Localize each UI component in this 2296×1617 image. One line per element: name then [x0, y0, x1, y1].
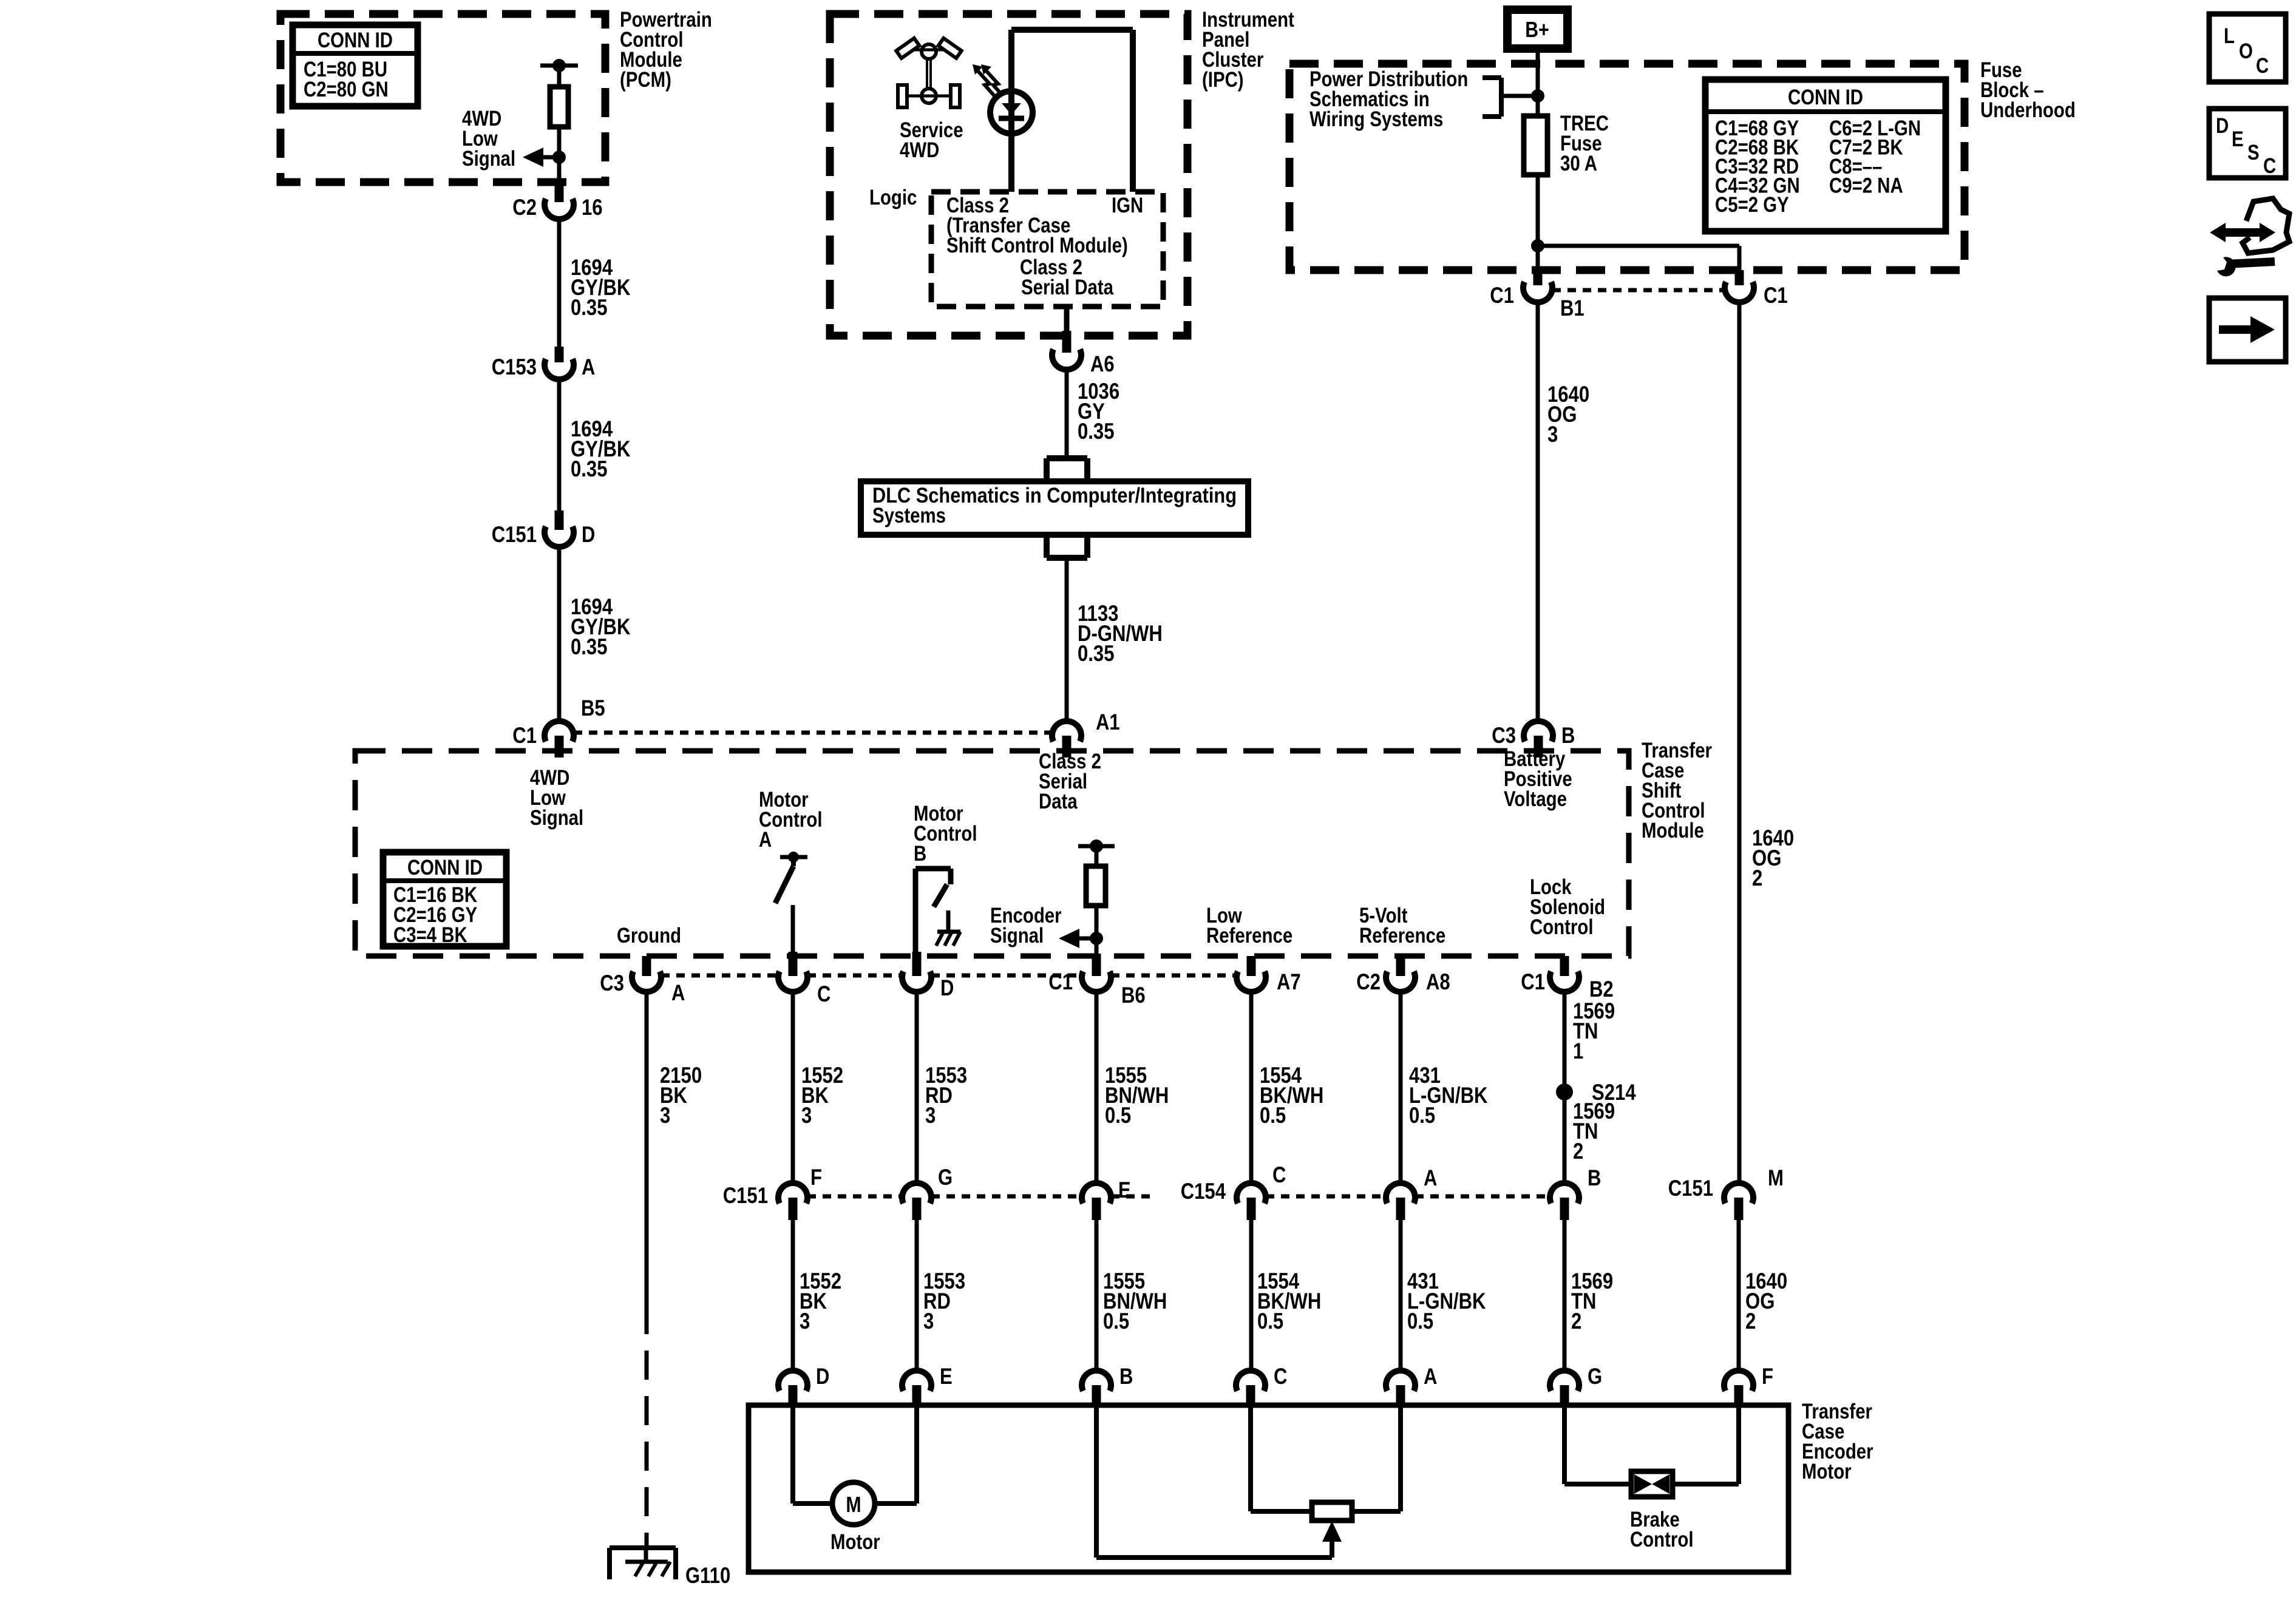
svg-text:2: 2 — [1745, 1309, 1756, 1334]
svg-text:A6: A6 — [1090, 351, 1115, 376]
svg-text:O: O — [2239, 39, 2253, 63]
svg-text:F: F — [810, 1165, 822, 1190]
svg-text:C1: C1 — [1048, 969, 1073, 994]
svg-text:Data: Data — [1039, 790, 1078, 813]
svg-text:S: S — [2247, 141, 2260, 164]
svg-text:0.5: 0.5 — [1407, 1309, 1433, 1334]
svg-text:Signal: Signal — [462, 147, 515, 171]
svg-text:0.5: 0.5 — [1105, 1103, 1131, 1128]
svg-text:C3: C3 — [600, 971, 624, 995]
svg-text:0.35: 0.35 — [571, 634, 608, 659]
svg-text:A1: A1 — [1096, 710, 1120, 734]
svg-text:A: A — [1424, 1165, 1437, 1190]
svg-text:C2=80 GN: C2=80 GN — [304, 78, 389, 101]
svg-text:C151: C151 — [1668, 1176, 1713, 1201]
svg-text:D: D — [940, 975, 954, 1000]
svg-text:Reference: Reference — [1206, 924, 1292, 947]
svg-text:G110: G110 — [685, 1563, 730, 1588]
svg-text:B: B — [914, 842, 926, 866]
svg-text:E: E — [1118, 1178, 1131, 1202]
svg-text:3: 3 — [1547, 422, 1558, 447]
svg-text:B5: B5 — [581, 696, 605, 720]
svg-text:3: 3 — [800, 1309, 810, 1334]
svg-text:0.5: 0.5 — [1257, 1309, 1283, 1334]
svg-text:2: 2 — [1752, 866, 1762, 890]
svg-text:D: D — [582, 522, 595, 547]
svg-text:1: 1 — [1573, 1039, 1583, 1063]
svg-text:CONN ID: CONN ID — [1788, 86, 1863, 109]
svg-text:B2: B2 — [1589, 977, 1614, 1002]
svg-text:G: G — [938, 1165, 953, 1190]
svg-text:Motor: Motor — [1802, 1460, 1852, 1483]
svg-text:0.35: 0.35 — [1078, 419, 1115, 444]
svg-text:C1: C1 — [1490, 283, 1514, 308]
svg-text:(PCM): (PCM) — [620, 68, 671, 92]
svg-text:C153: C153 — [492, 354, 537, 379]
svg-text:G: G — [1588, 1364, 1602, 1389]
svg-text:B: B — [1588, 1165, 1601, 1190]
svg-text:0.35: 0.35 — [571, 456, 608, 481]
svg-text:C: C — [817, 981, 830, 1006]
svg-text:Voltage: Voltage — [1504, 787, 1567, 811]
svg-text:Motor: Motor — [830, 1530, 880, 1554]
svg-text:IGN: IGN — [1112, 194, 1143, 217]
svg-text:0.5: 0.5 — [1409, 1103, 1435, 1128]
svg-text:2: 2 — [1571, 1309, 1581, 1334]
svg-text:E: E — [2232, 127, 2244, 151]
svg-text:C5=2 GY: C5=2 GY — [1715, 193, 1789, 217]
svg-text:E: E — [940, 1364, 953, 1389]
svg-text:Signal: Signal — [530, 806, 583, 830]
svg-text:Shift Control Module): Shift Control Module) — [946, 234, 1128, 257]
svg-text:D: D — [816, 1364, 829, 1389]
svg-text:F: F — [1762, 1364, 1773, 1389]
svg-text:Module: Module — [1642, 819, 1704, 842]
svg-text:C: C — [2256, 54, 2269, 78]
svg-text:C2: C2 — [512, 195, 537, 220]
svg-text:C151: C151 — [723, 1183, 768, 1208]
svg-text:(IPC): (IPC) — [1202, 68, 1244, 92]
svg-text:C9=2 NA: C9=2 NA — [1829, 174, 1903, 198]
svg-text:B6: B6 — [1121, 983, 1146, 1008]
svg-text:3: 3 — [660, 1103, 670, 1128]
svg-text:L: L — [2224, 24, 2235, 48]
svg-text:B: B — [1561, 723, 1575, 748]
svg-text:A: A — [759, 828, 772, 852]
svg-text:B: B — [1119, 1364, 1133, 1389]
svg-text:C1: C1 — [512, 723, 537, 748]
svg-text:Systems: Systems — [872, 504, 946, 527]
svg-text:0.35: 0.35 — [571, 295, 608, 320]
svg-text:D: D — [2216, 114, 2229, 138]
svg-text:Serial Data: Serial Data — [1021, 276, 1113, 299]
svg-text:A7: A7 — [1277, 969, 1301, 994]
svg-text:C: C — [1274, 1364, 1287, 1389]
svg-text:0.35: 0.35 — [1078, 641, 1115, 666]
svg-text:C3=4 BK: C3=4 BK — [393, 923, 467, 947]
svg-text:C: C — [2263, 154, 2276, 178]
svg-text:30 A: 30 A — [1560, 152, 1597, 175]
svg-text:4WD: 4WD — [900, 138, 939, 162]
svg-text:C1: C1 — [1764, 283, 1788, 308]
svg-text:3: 3 — [923, 1309, 934, 1334]
svg-text:M: M — [1768, 1165, 1784, 1190]
svg-text:B+: B+ — [1525, 17, 1549, 42]
svg-text:C154: C154 — [1181, 1179, 1226, 1204]
svg-text:0.5: 0.5 — [1260, 1103, 1286, 1128]
svg-text:Control: Control — [1630, 1528, 1694, 1551]
svg-text:Logic: Logic — [869, 186, 917, 209]
svg-text:2: 2 — [1573, 1139, 1583, 1164]
svg-text:A: A — [1424, 1364, 1437, 1389]
svg-text:16: 16 — [582, 195, 603, 220]
svg-text:0.5: 0.5 — [1103, 1309, 1129, 1334]
svg-text:A8: A8 — [1426, 969, 1450, 994]
svg-text:C1: C1 — [1521, 969, 1545, 994]
svg-text:3: 3 — [925, 1103, 936, 1128]
svg-text:CONN ID: CONN ID — [318, 29, 393, 52]
svg-text:3: 3 — [801, 1103, 812, 1128]
svg-text:A: A — [671, 980, 685, 1005]
svg-text:C3: C3 — [1492, 723, 1516, 748]
svg-text:Reference: Reference — [1359, 924, 1445, 947]
svg-text:Ground: Ground — [617, 924, 681, 947]
svg-text:Wiring Systems: Wiring Systems — [1309, 107, 1443, 131]
svg-text:Control: Control — [1530, 915, 1594, 939]
svg-text:M: M — [846, 1492, 861, 1517]
svg-text:Signal: Signal — [990, 924, 1044, 947]
svg-text:B1: B1 — [1560, 296, 1584, 320]
svg-text:A: A — [582, 354, 595, 379]
svg-text:C2: C2 — [1356, 969, 1381, 994]
svg-text:C: C — [1272, 1162, 1286, 1187]
svg-text:C151: C151 — [492, 522, 537, 547]
svg-text:Underhood: Underhood — [1980, 98, 2076, 122]
svg-text:CONN ID: CONN ID — [407, 856, 483, 880]
